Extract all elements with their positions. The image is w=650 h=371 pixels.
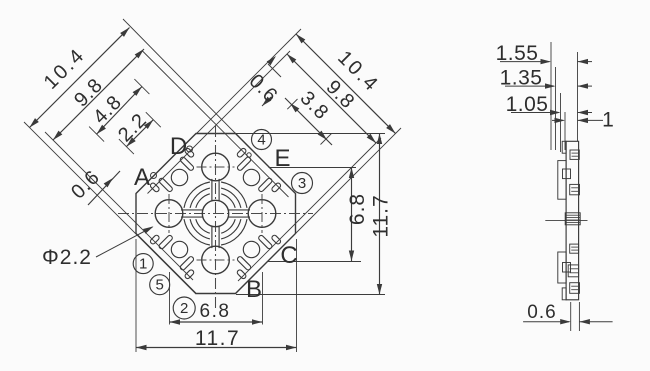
pin bubble 5 (150, 275, 170, 295)
dimension 6.8 right vertical (351, 168, 353, 262)
bottom hole crosshair (197, 259, 235, 261)
dim 0.6 side extension lines (570, 302, 572, 331)
svg-text:5: 5 (156, 277, 164, 294)
dimension 3.8 right (285, 98, 332, 145)
side small rect on left edge lower (563, 263, 571, 273)
svg-text:1: 1 (602, 109, 614, 132)
side dim extension verticals (550, 42, 552, 150)
svg-text:1: 1 (139, 256, 147, 273)
side body bottom-left step (562, 288, 566, 300)
svg-text:A: A (134, 164, 150, 191)
side middle solder pad (565, 213, 580, 225)
NW edge extension line (196, 29, 301, 134)
side terminal square 1 (570, 150, 579, 159)
dimension 9.8 right (287, 54, 376, 143)
SE pad pattern (227, 225, 282, 280)
svg-text:B: B (246, 276, 262, 303)
bottom hole (dia 2.2) (202, 246, 230, 274)
via near A (151, 173, 157, 179)
svg-text:E: E (274, 145, 290, 172)
leader dia 2.2 (96, 227, 153, 257)
svg-text:C: C (280, 242, 297, 269)
dimension 0.6 left (88, 171, 120, 205)
inner ring arc r20.5 (221, 219, 235, 233)
dimension 9.8 left (53, 49, 144, 140)
side terminal lug lower (558, 252, 566, 283)
dimension 0.6 side (523, 321, 569, 323)
dim 11.7 right extension lines (236, 133, 385, 135)
top hole crosshair (197, 166, 235, 168)
left hole crosshair (168, 194, 170, 233)
svg-text:11.7: 11.7 (195, 327, 240, 350)
pin bubble 2 (173, 297, 195, 319)
outer ring arc r32 (221, 219, 247, 245)
side small rect on left edge upper (563, 169, 571, 179)
NW pad pattern (149, 147, 204, 202)
pin bubble 3 (292, 173, 313, 194)
via near pad 4 (247, 153, 251, 157)
dimension 6.8 bottom (170, 321, 263, 323)
dim 6.8 right extension lines (269, 167, 357, 169)
dimension 11.7 bottom (136, 347, 297, 349)
svg-text:6.8: 6.8 (200, 301, 231, 322)
pin bubble 4 (252, 130, 272, 150)
svg-text:D: D (170, 133, 187, 160)
side middle pad centerline (545, 219, 587, 221)
part outline octagon (136, 134, 296, 294)
dimension 0.6 right (268, 64, 281, 77)
cross arm right (228, 209, 250, 211)
right hole crosshair (261, 194, 263, 233)
side body top-left step (562, 141, 566, 153)
SW inner lip line (45, 132, 193, 280)
via near D (187, 146, 193, 152)
dimension 4.8 left (97, 87, 142, 135)
middle ring arc r26 (221, 219, 241, 239)
NE edge extension line (123, 19, 236, 134)
cross arm down (211, 226, 213, 248)
side terminal lug upper (558, 161, 566, 200)
side terminal square 2 (570, 184, 580, 194)
svg-text:2.2: 2.2 (114, 109, 151, 146)
side terminal square 4 (568, 265, 578, 277)
SE inner lip line (238, 138, 381, 281)
top hole (dia 2.2) (202, 153, 230, 181)
NE pad pattern (227, 147, 282, 202)
cross arm left (181, 209, 203, 211)
centerline horizontal (118, 213, 313, 215)
dimension 2.2 left (126, 120, 153, 147)
SE edge extension line (296, 128, 402, 234)
cross arm up (211, 179, 213, 201)
svg-text:11.7: 11.7 (370, 194, 393, 237)
dimension 1 (552, 119, 564, 121)
side right extension vertical (577, 52, 579, 141)
NW inner lip line (148, 51, 291, 194)
centerline vertical (215, 126, 217, 309)
side terminal square 5 (570, 283, 580, 294)
dimension 11.7 right vertical (379, 134, 381, 295)
svg-text:6.8: 6.8 (346, 193, 369, 225)
SW edge extension line (24, 122, 196, 294)
dim 11.7 bottom extension lines (135, 239, 137, 352)
svg-text:Φ2.2: Φ2.2 (42, 246, 92, 269)
svg-text:4: 4 (257, 132, 265, 149)
side view body (566, 141, 579, 299)
svg-text:0.6: 0.6 (245, 70, 282, 107)
SW pad pattern (149, 225, 204, 280)
dim 6.8 bottom extension lines (169, 272, 171, 325)
left hole (dia 2.2) (155, 200, 183, 228)
svg-text:2: 2 (180, 300, 188, 317)
svg-text:0.6: 0.6 (527, 302, 556, 323)
svg-text:3: 3 (298, 175, 306, 192)
svg-text:0.6: 0.6 (67, 166, 104, 203)
right hole (dia 2.2) (248, 200, 276, 228)
pin bubble 1 (133, 254, 153, 274)
side terminal square 3 (570, 244, 579, 253)
dimension 10.4 left (30, 28, 130, 128)
dimension 10.4 right (296, 34, 396, 134)
center hole (202, 200, 228, 226)
NE inner lip line (142, 51, 289, 198)
